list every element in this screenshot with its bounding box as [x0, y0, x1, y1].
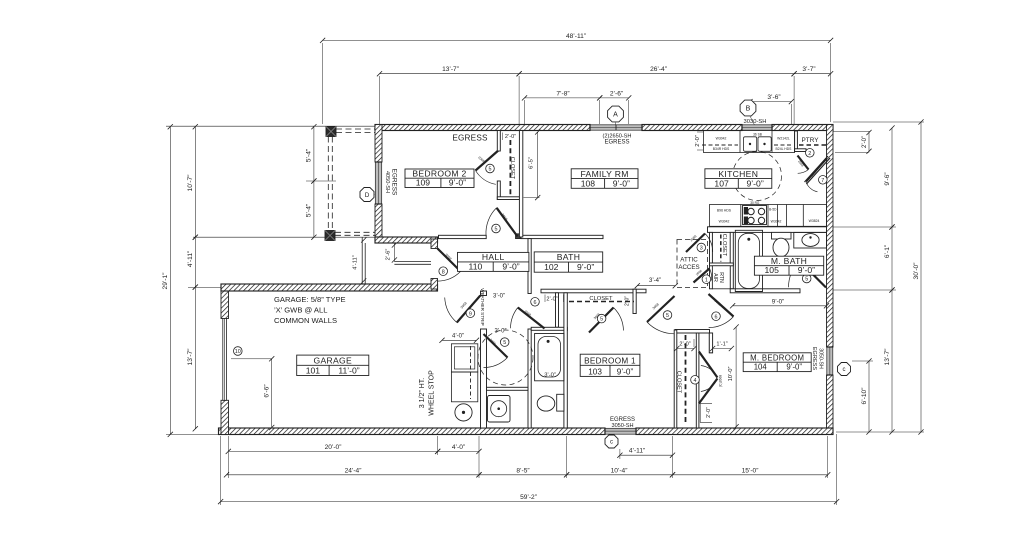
garage left wall upper segment: [221, 284, 229, 319]
svg-text:2’-0”: 2’-0”: [862, 136, 868, 148]
svg-text:104: 104: [754, 363, 768, 372]
svg-text:B96 HDS: B96 HDS: [717, 209, 732, 213]
svg-text:9’-0”: 9’-0”: [613, 178, 630, 188]
svg-text:3: 3: [700, 246, 703, 252]
bedroom 2 left wall upper segment: [375, 125, 382, 163]
svg-text:6: 6: [534, 300, 537, 306]
svg-text:5: 5: [600, 317, 603, 323]
mbath tub: [735, 230, 762, 291]
bath east wall / bedroom1 west wall: [564, 293, 567, 428]
extension line right y361: [852, 360, 873, 362]
svg-text:B: B: [746, 106, 751, 113]
bedroom 2 left wall lower segment: [375, 204, 382, 243]
right exterior wall upper segment: [827, 125, 834, 348]
extension line at x794: [793, 76, 795, 131]
bedroom1 closet rod dashed line: [569, 301, 634, 303]
extension x228 bottom: [227, 436, 229, 478]
extension x479 bottom: [478, 436, 480, 478]
svg-text:RTN: RTN: [718, 272, 724, 283]
extension line right of 48'-11'': [830, 43, 832, 122]
mbedroom bifold arcs: [701, 366, 718, 378]
svg-text:D: D: [365, 192, 370, 199]
svg-text:103: 103: [588, 367, 602, 376]
svg-text:3’-6”: 3’-6”: [767, 94, 780, 101]
svg-text:3 1/2” HT.: 3 1/2” HT.: [419, 378, 426, 408]
dimension 5'-4'' lower: [313, 181, 315, 237]
mbedroom closet rod dashed: [685, 335, 687, 424]
extension line right y227: [833, 226, 896, 228]
front entry jamb lower: [431, 279, 438, 290]
pantry door 2 arc: [798, 170, 809, 174]
room table BATH: [534, 252, 603, 272]
bedroom2 closet west wall lower: [497, 181, 500, 200]
mbath closet east wall: [730, 232, 733, 288]
kitchen mbath wall: [708, 227, 827, 233]
svg-text:13’-7”: 13’-7”: [442, 66, 459, 73]
extension line x599: [599, 100, 601, 124]
svg-text:9’-0”: 9’-0”: [798, 265, 815, 275]
dimension 13'-7'' left: [194, 287, 196, 429]
svg-text:4’-0”: 4’-0”: [452, 334, 464, 340]
extension x437 bottom: [437, 436, 439, 455]
svg-text:5: 5: [489, 167, 492, 173]
laundry alcove wall: [487, 387, 529, 390]
dimension 20'-0'' bottom: [228, 450, 437, 452]
bath toilet: [537, 396, 555, 411]
mbedroom closet east wall: [696, 333, 699, 428]
svg-text:13’-7”: 13’-7”: [187, 349, 194, 366]
svg-text:CLOSET: CLOSET: [721, 234, 727, 257]
bedroom2 closet door arc: [476, 171, 496, 185]
bath tub: [535, 334, 564, 381]
bedroom2 east wall: [519, 131, 522, 238]
bedroom 1 egress window 3050-SH: [605, 428, 636, 434]
room table GARAGE: [297, 355, 369, 375]
mbath toilet: [772, 232, 792, 239]
mbath south wall: [730, 289, 800, 293]
bedroom1 closet door arc: [614, 308, 624, 331]
mbath closet divider: [710, 263, 734, 266]
bedroom2 closet door leaf: [476, 151, 499, 171]
garage overhead door: [223, 319, 227, 401]
extension line at x519: [518, 76, 520, 124]
mbath door tag 5: [802, 274, 811, 283]
svg-text:6’-5”: 6’-5”: [529, 157, 535, 169]
family room window (2)2650-SH: [590, 125, 642, 130]
svg-text:B24L HDS: B24L HDS: [776, 147, 793, 151]
room table HALL: [458, 252, 529, 271]
svg-text:2’-0”: 2’-0”: [625, 296, 631, 306]
entry stoop side line: [361, 237, 363, 284]
bedroom1 closet door leaf: [589, 308, 614, 333]
svg-text:7: 7: [821, 178, 824, 184]
svg-text:9’-0”: 9’-0”: [449, 178, 466, 188]
extension line left of 48'-11'': [322, 43, 324, 124]
svg-text:HALL: HALL: [482, 252, 505, 262]
room table M. BEDROOM: [743, 353, 811, 372]
porch roof line: [166, 125, 375, 127]
svg-text:9’-6”: 9’-6”: [884, 172, 891, 185]
extension line bottom-left wall: [166, 433, 219, 435]
svg-text:1: 1: [705, 277, 708, 283]
extension x827 bottom: [827, 436, 829, 478]
kitchen upper cabinets: [704, 131, 795, 153]
svg-text:ATTIC: ATTIC: [680, 257, 698, 264]
mbath door 5 arc: [789, 261, 800, 287]
entry stoop front line: [394, 261, 431, 263]
svg-text:48’-11”: 48’-11”: [566, 33, 586, 40]
svg-text:W3042: W3042: [716, 137, 727, 141]
dimension 9'-6'' right: [891, 128, 893, 227]
dimension 8'-5'' bottom: [479, 474, 567, 476]
svg-text:PTRY: PTRY: [802, 137, 820, 144]
svg-text:’X’ GWB @ ALL: ’X’ GWB @ ALL: [274, 306, 327, 315]
svg-text:108: 108: [581, 178, 596, 188]
mbedroom 10'-0'' dim: [735, 327, 737, 427]
dimension 3'-4'': [637, 285, 675, 287]
dimension 2'-6'' top: [600, 97, 629, 99]
svg-text:EGRESS: EGRESS: [811, 347, 817, 371]
room table FAMILY RM: [571, 169, 638, 189]
svg-text:109: 109: [416, 178, 431, 188]
attic door 1 tag: [702, 275, 711, 284]
svg-text:5’-4”: 5’-4”: [306, 204, 313, 217]
window tag B hexagon: [740, 100, 756, 116]
corridor north wall west segment: [439, 235, 487, 238]
corridor north wall jamb: [516, 234, 522, 239]
svg-text:4: 4: [694, 378, 697, 384]
svg-text:W3042: W3042: [771, 220, 782, 224]
svg-text:9’-0”: 9’-0”: [577, 262, 594, 272]
svg-text:B34R HDS: B34R HDS: [713, 147, 730, 151]
bath door 6 leaf 3068: [518, 308, 545, 329]
porch column upper: [326, 127, 336, 137]
dimension 48'-11'' overall top: [323, 39, 831, 41]
svg-text:(2)2650-SH: (2)2650-SH: [603, 133, 632, 139]
svg-text:1’-1”: 1’-1”: [716, 341, 727, 347]
svg-text:3’-0”: 3’-0”: [494, 328, 506, 334]
svg-text:WEATHER STRIP: WEATHER STRIP: [480, 288, 485, 325]
svg-text:W3824: W3824: [809, 219, 820, 223]
svg-text:3’-0”: 3’-0”: [544, 373, 556, 379]
svg-text:EGRESS: EGRESS: [452, 134, 488, 143]
extension line x524: [524, 100, 526, 124]
mbath vanity counter: [794, 232, 827, 248]
svg-text:20’-0”: 20’-0”: [325, 444, 342, 451]
garage door tag 10: [234, 347, 243, 356]
svg-text:29’-1”: 29’-1”: [162, 273, 169, 290]
bedroom2 door 5 arc: [486, 208, 497, 236]
kitchen ada dashed circle: [733, 152, 782, 201]
dimension 10'-4'' bottom: [567, 474, 673, 476]
svg-text:GARAGE: 5/8” TYPE: GARAGE: 5/8” TYPE: [274, 295, 346, 304]
svg-text:105: 105: [765, 265, 780, 275]
dimension 29'-1'' overall left: [169, 127, 171, 435]
dimension 6'-10'' right: [868, 361, 870, 432]
extension line right y432: [836, 431, 924, 433]
bedroom1 closet east wall: [633, 289, 636, 313]
porch column lower: [325, 231, 335, 241]
svg-text:15’-0”: 15’-0”: [742, 467, 759, 474]
svg-text:110: 110: [469, 261, 483, 271]
svg-text:c: c: [610, 440, 613, 446]
hall kitchen door 7 leaf 2668: [806, 159, 827, 182]
dimension 4'-0'' bottom: [438, 450, 479, 452]
svg-text:9’-0”: 9’-0”: [772, 298, 784, 305]
svg-text:4’-0”: 4’-0”: [452, 444, 465, 451]
front door 8 leaf 3068: [438, 249, 461, 272]
dimension 15'-0'' bottom: [673, 474, 828, 476]
dimension 13'-7'' top: [380, 73, 520, 75]
svg-text:GARAGE: GARAGE: [314, 356, 353, 366]
svg-text:6: 6: [715, 314, 718, 320]
svg-text:5’-4”: 5’-4”: [306, 149, 313, 162]
extension line x313 mid: [306, 180, 336, 182]
svg-text:10: 10: [235, 349, 241, 355]
svg-text:10’-4”: 10’-4”: [611, 467, 628, 474]
kitchen range: [743, 206, 767, 225]
mbedroom door 6 leaf 3068: [709, 294, 734, 317]
mbath door 5 leaf 2668: [800, 261, 827, 288]
mbath closet rod dashed: [720, 235, 722, 262]
bedroom1 door 5 leaf 3068: [647, 296, 675, 322]
nook south wall: [675, 330, 710, 334]
door tag 7: [819, 176, 828, 185]
front door 8 arc: [438, 271, 461, 281]
svg-text:10’-0”: 10’-0”: [728, 367, 734, 382]
room table M. BATH: [754, 256, 823, 275]
svg-text:101: 101: [306, 366, 321, 376]
svg-text:11’-0”: 11’-0”: [338, 366, 359, 376]
svg-text:4’-11”: 4’-11”: [187, 251, 194, 267]
svg-text:6’-10”: 6’-10”: [861, 388, 868, 405]
dimension 10'-7'' left: [194, 127, 196, 238]
attic door 3 leaf 2668: [686, 234, 705, 253]
svg-text:26’-4”: 26’-4”: [650, 66, 667, 73]
hall laundry door 5 leaf: [484, 334, 508, 358]
hall laundry door 5 arc: [484, 358, 508, 368]
master bedroom egress window 3050-SH: [827, 347, 833, 375]
svg-text:5: 5: [805, 277, 808, 283]
svg-text:5: 5: [503, 340, 506, 346]
svg-text:2’-0”: 2’-0”: [679, 341, 690, 347]
svg-text:30’-0”: 30’-0”: [913, 263, 920, 280]
svg-text:2’-0”: 2’-0”: [695, 135, 701, 147]
dimension 4'-11'' bottom: [620, 454, 673, 456]
garage top wall: [221, 284, 438, 291]
kitchen base cabinets: [710, 205, 827, 227]
svg-text:6’-6”: 6’-6”: [263, 384, 270, 397]
air return box: [712, 266, 730, 289]
bedroom1 closet door tag 5: [597, 314, 606, 323]
svg-text:CLOSET: CLOSET: [675, 371, 681, 394]
kitchen window 3030-SH: [742, 125, 772, 130]
attic door 1 leaf 1668: [694, 269, 710, 283]
extension line x791: [790, 104, 792, 124]
svg-text:CLOSET: CLOSET: [589, 296, 613, 302]
dimension 4'-11'' left: [194, 237, 196, 287]
dimension 6'-1'' right: [891, 227, 893, 290]
svg-text:2’-0”: 2’-0”: [505, 134, 516, 140]
svg-text:EGRESS: EGRESS: [604, 140, 629, 146]
svg-text:9’-0”: 9’-0”: [746, 178, 763, 188]
extension line x628: [628, 100, 630, 124]
svg-text:9’-0”: 9’-0”: [786, 363, 802, 372]
bedroom 2 bottom wall: [375, 237, 438, 243]
dimension 26'-4'' top: [519, 73, 794, 75]
mbedroom vestibule stub wall: [709, 333, 712, 353]
svg-text:KITCHEN: KITCHEN: [718, 169, 758, 179]
bedroom1 door 5 arc: [647, 322, 674, 334]
porch dashed edge vertical: [327, 137, 329, 231]
svg-text:2’-6”: 2’-6”: [385, 249, 391, 261]
porch dashed edge bottom: [335, 231, 375, 233]
pantry south wall: [795, 149, 806, 152]
pantry door tag 2: [806, 149, 815, 158]
mbedroom door tag 6: [712, 312, 721, 321]
porch floor line: [193, 236, 375, 238]
svg-text:107: 107: [714, 178, 729, 188]
svg-text:4050-SH: 4050-SH: [384, 171, 390, 193]
pantry shelf dashed: [799, 144, 826, 146]
wheel stop platform lower: [451, 372, 477, 402]
pantry west wall: [795, 131, 798, 152]
wheel stop dashed line: [470, 346, 472, 399]
svg-text:30 RG: 30 RG: [750, 201, 760, 205]
mbedroom bifold doors lower leaf: [699, 379, 718, 404]
svg-text:EGRESS: EGRESS: [391, 169, 398, 196]
door tag 8: [439, 267, 448, 276]
svg-text:5: 5: [666, 313, 669, 319]
attic door 3 tag: [697, 243, 706, 252]
kitchen corner diagonal wall: [805, 156, 829, 182]
svg-text:AIR: AIR: [712, 273, 718, 282]
svg-text:6’-1”: 6’-1”: [884, 245, 891, 258]
svg-text:24’-4”: 24’-4”: [345, 467, 362, 474]
bedroom2 closet south wall: [497, 197, 521, 200]
window tag c right hexagon: [838, 363, 851, 376]
svg-text:7’-8”: 7’-8”: [556, 90, 569, 97]
svg-text:B-5D: B-5D: [769, 208, 777, 212]
mbedroom door 6 arc: [709, 317, 734, 328]
bath door tag 6: [531, 298, 540, 307]
corridor north wall east segment: [521, 235, 603, 238]
bedroom2 door 5 leaf 3068: [497, 208, 518, 237]
svg-text:A: A: [613, 112, 618, 119]
svg-text:M. BEDROOM: M. BEDROOM: [750, 353, 804, 362]
svg-text:COMMON WALLS: COMMON WALLS: [274, 316, 337, 325]
bedroom1 door tag 5: [663, 311, 672, 320]
hall kitchen door 7 arc: [806, 182, 818, 192]
svg-text:2’-0”: 2’-0”: [546, 296, 557, 302]
extension x672 bottom: [672, 436, 674, 478]
front entry jamb upper: [431, 239, 438, 249]
water heater circle: [455, 404, 472, 421]
mbath 9'-0'' dim: [733, 305, 827, 307]
window tag D hexagon: [360, 188, 374, 202]
svg-text:8: 8: [442, 269, 445, 275]
dimension 59'-2'' overall bottom: [221, 501, 837, 503]
dimension 3'-6'' kitchen window: [750, 101, 791, 103]
bottom exterior wall left segment: [219, 428, 606, 435]
svg-text:WHEEL STOP: WHEEL STOP: [429, 370, 436, 416]
svg-text:5: 5: [495, 227, 498, 233]
bedroom2 door tag 5: [492, 224, 501, 233]
svg-text:3050-SH: 3050-SH: [611, 423, 633, 429]
svg-text:FAMILY RM: FAMILY RM: [580, 169, 628, 179]
extension x566 bottom: [566, 436, 568, 478]
garage door 9 leaf 3068: [457, 296, 481, 323]
porch dashed edge top: [336, 128, 375, 130]
svg-text:102: 102: [544, 262, 559, 272]
dimension 6'-6'' garage door: [271, 359, 273, 428]
svg-text:3’-0”: 3’-0”: [493, 294, 505, 300]
mbath closet west wall: [710, 232, 713, 288]
bath closet north wall: [541, 289, 646, 293]
pantry door 2 leaf 2668: [798, 156, 809, 170]
bedroom2 closet door tag 5: [486, 164, 495, 173]
svg-text:8’-5”: 8’-5”: [516, 467, 529, 474]
dimension 4'-0'' nook: [442, 339, 477, 341]
dimension 7'-8'': [525, 97, 600, 99]
right exterior wall lower segment: [827, 375, 834, 435]
extension x220 bottom tall: [220, 436, 222, 505]
hall ada dashed circle: [478, 330, 533, 385]
hall bath wall lower segment: [528, 329, 531, 428]
washing machine: [488, 396, 511, 423]
room table BEDROOM 1: [580, 354, 640, 376]
svg-text:4’-11”: 4’-11”: [353, 255, 359, 269]
svg-text:3’-7”: 3’-7”: [802, 66, 815, 73]
svg-text:2: 2: [808, 151, 811, 157]
extension line garage top: [188, 287, 221, 289]
svg-text:3’-4”: 3’-4”: [649, 278, 661, 284]
dimension 3'-7'' top: [794, 73, 831, 75]
dimension 5'-4'' upper: [313, 127, 315, 181]
svg-text:CLOSET: CLOSET: [509, 157, 515, 180]
attic access dashed platform: [677, 240, 708, 288]
mbedroom bifold doors (C)2668 upper leaf: [699, 352, 718, 378]
svg-text:9’-0”: 9’-0”: [502, 261, 519, 271]
dimension 30'-0'' overall right: [920, 122, 922, 432]
bedroom1 east wall / mbedroom closet west wall: [674, 330, 677, 428]
bedroom2 closet west wall upper: [497, 131, 500, 152]
dimension 24'-4'' bottom: [227, 474, 480, 476]
svg-text:W2142L: W2142L: [777, 137, 790, 141]
top exterior wall right segment: [772, 125, 833, 131]
extension x620 bottom: [619, 449, 621, 459]
bath niche stub wall: [556, 293, 559, 328]
bedroom2 closet rod dashed: [509, 140, 511, 196]
garage left wall lower segment: [221, 400, 229, 434]
bath tub alcove south wall: [531, 327, 567, 330]
svg-text:c: c: [843, 367, 846, 373]
svg-text:W3042: W3042: [719, 220, 730, 224]
bifold door tag 4: [691, 376, 700, 385]
svg-text:3050-SH: 3050-SH: [818, 348, 824, 369]
room table KITCHEN: [705, 169, 772, 189]
dimension 6'-5'': [537, 132, 539, 198]
hall west wall upper segment: [481, 291, 487, 296]
svg-text:4’-11”: 4’-11”: [629, 448, 645, 455]
door tag 9: [466, 309, 475, 318]
svg-text:BATH: BATH: [557, 252, 580, 262]
hall door tag 5: [500, 338, 509, 347]
bottom exterior wall right segment: [636, 428, 833, 435]
hall west wall lower segment: [481, 329, 487, 428]
hall bath wall upper segment: [528, 239, 531, 294]
bath door 6 arc: [511, 308, 518, 329]
